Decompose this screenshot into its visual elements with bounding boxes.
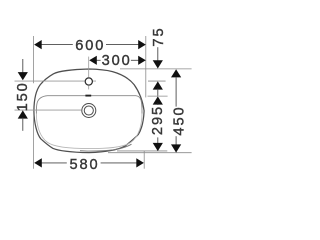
basin inner bowl (36, 96, 142, 114)
dim 580 line left segment (41, 162, 67, 164)
basin outer outline (34, 69, 144, 153)
faucet centerline extension right (148, 80, 166, 82)
dim 150 upper tail (22, 59, 24, 73)
extension line left (580) (33, 115, 35, 169)
dim 295 upper shaft (157, 104, 159, 105)
dim 150 lower tail (22, 118, 24, 131)
dim 600 line right segment (106, 44, 140, 46)
drain outer circle (82, 104, 96, 118)
svg-text:150: 150 (15, 81, 31, 111)
dim 150 down arrow (18, 72, 28, 80)
dim 600 line left segment (41, 44, 73, 46)
extension line left (600) (33, 36, 35, 83)
dim 300 line left segment (96, 59, 101, 61)
inner rim top extension right (148, 95, 168, 97)
dim 300 left arrow (89, 56, 97, 65)
svg-text:600: 600 (75, 38, 105, 54)
dim 295 up arrow (153, 96, 163, 104)
dim 75 down arrow (153, 60, 163, 68)
dim 450 lower shaft (175, 136, 177, 145)
svg-text:75: 75 (151, 27, 167, 47)
dim 150 up arrow (18, 110, 28, 118)
faucet centerline horizontal (15, 80, 85, 82)
svg-text:580: 580 (69, 157, 99, 173)
dim 450 up arrow (171, 69, 181, 77)
faucet centerline horizontal right stub (93, 80, 96, 82)
faucet hole (85, 78, 92, 85)
svg-text:300: 300 (102, 53, 132, 69)
faucet centerline vertical lower stub (88, 85, 90, 89)
svg-text:450: 450 (172, 106, 188, 136)
rim bottom extension right (117, 150, 167, 152)
faucet centerline vertical (88, 57, 90, 78)
dim 450 down arrow (171, 144, 181, 152)
basin inner bowl lower half (faint) (36, 114, 142, 149)
extension line right (600/300) (145, 36, 147, 97)
dim 75 up arrow (153, 81, 163, 89)
dim 580 left arrow (34, 158, 42, 167)
drain centerline horizontal (15, 109, 82, 111)
extension line top edge right (120, 68, 192, 70)
dim 580 right arrow (136, 158, 144, 167)
dim 600 right arrow (138, 40, 146, 49)
svg-text:295: 295 (150, 105, 166, 135)
dim 300 right arrow (138, 56, 146, 65)
dim 295 lower shaft (157, 137, 159, 144)
dim 75 upper tail (157, 47, 159, 61)
drain inner circle (84, 106, 93, 115)
dim 300 line right segment (131, 59, 140, 61)
overflow slot (85, 95, 91, 97)
dim 75 lower tail (157, 89, 159, 96)
silhouette bottom extension right (108, 152, 192, 154)
extension line right (580) (143, 151, 145, 169)
dim 600 left arrow (34, 40, 42, 49)
dim 580 line right segment (101, 162, 138, 164)
dim 450 upper shaft (175, 77, 177, 106)
basin rim bottom line (80, 144, 132, 151)
dim 295 down arrow (153, 143, 163, 151)
